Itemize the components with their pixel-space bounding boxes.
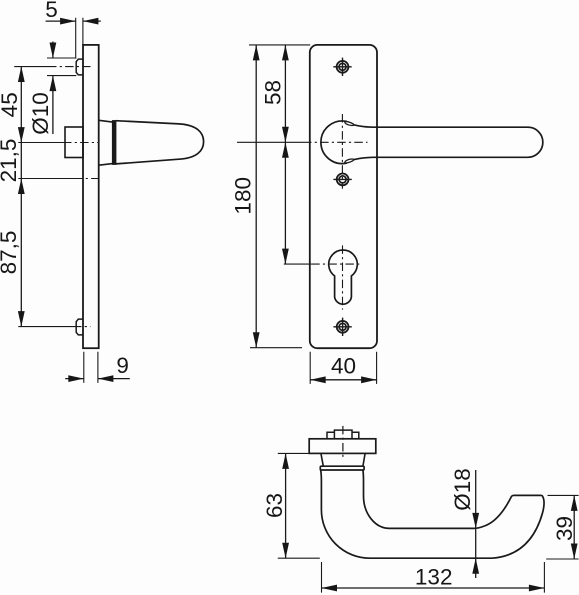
arrow 87,5 top xyxy=(18,179,25,195)
rose arc xyxy=(321,121,347,164)
arrow 39 top xyxy=(571,495,578,511)
dimension Ø10 arrows xyxy=(52,42,54,135)
arrow 132 right xyxy=(529,585,545,592)
arrow 39 bottom xyxy=(571,544,578,560)
arrow 5 right xyxy=(83,18,99,25)
backplate side profile xyxy=(83,45,99,348)
centre line bottom screw (side) xyxy=(18,326,73,328)
cylinder centre cross xyxy=(284,263,311,265)
svg-text:21,5: 21,5 xyxy=(0,139,21,183)
arrow Ø18 bottom xyxy=(472,558,479,574)
dimension 58 + chain line xyxy=(284,45,286,264)
bottom fixing screw (side) xyxy=(76,319,83,335)
dimension 9 extension lines xyxy=(84,352,98,383)
collar band (side) xyxy=(113,121,116,164)
svg-text:58: 58 xyxy=(261,80,286,105)
spindle and screws cap xyxy=(327,430,359,439)
arrow chain bottom xyxy=(282,249,289,265)
rose centre cross dashed xyxy=(303,114,368,189)
arrow chain top xyxy=(282,142,289,158)
dimension 180 line xyxy=(255,45,257,348)
chain dimension line 45 / 21,5 / 87,5 xyxy=(20,67,22,327)
centre line middle screw (side) xyxy=(18,178,74,180)
rose bar (top view) xyxy=(309,439,376,454)
arrow 9 left xyxy=(68,375,84,382)
svg-text:40: 40 xyxy=(331,354,356,379)
extension line plate bottom xyxy=(250,347,302,349)
dimension 39 extension lines xyxy=(546,495,578,559)
arrow 58 top xyxy=(282,45,289,61)
arrow 45 bottom xyxy=(18,127,25,143)
dimension 40 extension lines xyxy=(310,352,376,384)
arrow 87,5 bottom xyxy=(18,311,25,327)
svg-text:63: 63 xyxy=(262,493,287,518)
arrow 63 bottom xyxy=(282,543,289,559)
neck (top view) xyxy=(321,453,365,466)
svg-text:180: 180 xyxy=(230,177,255,215)
middle screw under lever xyxy=(333,174,351,186)
dimension 63 line xyxy=(285,453,287,558)
extension line plate top xyxy=(249,44,310,46)
dimension 39 line xyxy=(573,495,575,559)
dimension 40 line xyxy=(310,379,376,381)
dimension 5 line xyxy=(46,20,101,22)
centre line top screw (side) xyxy=(14,66,48,68)
dimension 9 line xyxy=(65,378,130,380)
dimension 132 extension lines xyxy=(322,562,545,593)
top screw xyxy=(333,58,351,76)
arrow 40 left xyxy=(310,376,326,383)
svg-text:45: 45 xyxy=(0,92,22,117)
svg-text:87,5: 87,5 xyxy=(0,231,21,275)
backplate front xyxy=(310,45,377,348)
grip tube (top view) xyxy=(321,470,544,558)
arrow 40 right xyxy=(361,376,377,383)
lever top lens xyxy=(345,121,355,125)
arrow 63 top xyxy=(282,453,289,469)
svg-text:132: 132 xyxy=(415,565,453,590)
arrow Ø10 bottom xyxy=(50,76,57,92)
lever bottom lens xyxy=(345,159,355,163)
svg-text:Ø10: Ø10 xyxy=(28,92,53,135)
arrow 132 left xyxy=(322,585,338,592)
grip cone (side) xyxy=(116,121,204,164)
bottom screw front xyxy=(333,318,351,336)
dimension 63 extension lines xyxy=(278,453,320,558)
arrow 9 right xyxy=(98,375,114,382)
handle neck (side) xyxy=(99,120,113,165)
collar band (top view) xyxy=(320,466,364,470)
arrow Ø18 top xyxy=(472,513,479,529)
arrow 58 bottom xyxy=(282,127,289,143)
euro profile cylinder hole xyxy=(329,250,358,304)
svg-text:Ø18: Ø18 xyxy=(450,468,475,511)
dimension 132 line xyxy=(322,587,545,589)
arrow 180 top xyxy=(253,45,260,61)
top fixing screw (side) xyxy=(76,59,83,75)
extension line handle centre xyxy=(237,141,303,143)
svg-text:39: 39 xyxy=(552,516,577,541)
arrow 180 bottom xyxy=(253,332,260,348)
dimension 5 extension lines xyxy=(76,18,83,59)
svg-text:5: 5 xyxy=(45,0,58,22)
svg-text:9: 9 xyxy=(116,353,129,378)
centre line (top view) xyxy=(342,426,344,458)
arrow 5 left xyxy=(60,18,76,25)
arrow 45 top xyxy=(18,67,25,83)
dimension Ø18 leader xyxy=(475,470,477,578)
centre line handle (side) xyxy=(18,142,63,144)
lever handle outline xyxy=(355,125,543,159)
arrow Ø10 top xyxy=(50,43,57,59)
rear bearing box xyxy=(65,127,83,158)
dimension Ø10 hole lines xyxy=(47,58,76,76)
